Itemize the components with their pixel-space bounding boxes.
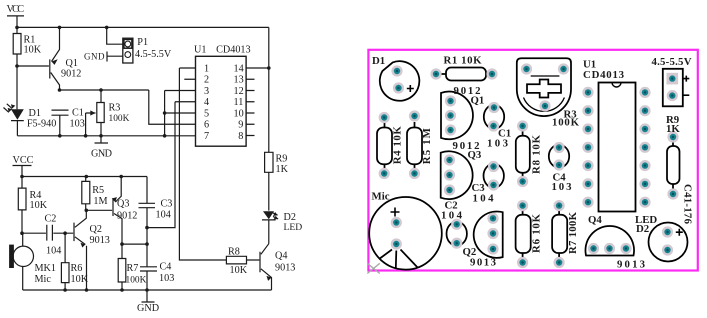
svg-text:R8: R8 [228,247,240,258]
svg-text:Mic: Mic [35,274,52,285]
svg-text:Q1: Q1 [66,58,78,69]
svg-text:R3: R3 [109,102,121,113]
svg-text:R6 10K: R6 10K [531,213,543,253]
svg-text:Q1: Q1 [471,95,485,107]
svg-text:10K: 10K [230,265,248,276]
svg-text:Q4: Q4 [275,251,287,262]
svg-text:9013: 9013 [275,262,295,273]
svg-text:CD4013: CD4013 [583,69,625,81]
svg-text:C2: C2 [45,214,57,225]
svg-text:C4: C4 [160,262,172,273]
svg-text:GND: GND [91,149,112,160]
svg-text:R5: R5 [92,185,104,196]
svg-text:9012: 9012 [117,210,137,221]
svg-text:R7: R7 [127,263,139,274]
svg-text:R1 10K: R1 10K [444,55,483,67]
svg-text:CD4013: CD4013 [216,45,251,56]
svg-text:103: 103 [70,119,85,130]
svg-text:R5 1M: R5 1M [421,128,433,164]
svg-text:104: 104 [46,246,61,257]
svg-text:Q3: Q3 [117,198,129,209]
svg-text:R7 100K: R7 100K [567,211,579,254]
svg-text:Q2: Q2 [90,224,102,235]
svg-text:103: 103 [552,181,573,193]
svg-text:1K: 1K [666,123,680,135]
svg-text:4.5-5.5V: 4.5-5.5V [652,56,692,68]
svg-text:10K: 10K [30,200,48,211]
svg-text:U1: U1 [194,45,206,56]
svg-text:14: 14 [234,63,244,74]
svg-text:9013: 9013 [617,259,646,271]
svg-text:P1: P1 [137,37,148,48]
svg-text:D1: D1 [372,55,385,67]
svg-text:5: 5 [204,108,209,119]
svg-text:R9: R9 [276,154,288,165]
svg-text:MK1: MK1 [35,263,57,274]
svg-text:R6: R6 [71,263,83,274]
svg-text:Q3: Q3 [468,149,482,161]
svg-text:12: 12 [234,86,244,97]
svg-text:100K: 100K [109,114,130,124]
svg-text:1: 1 [204,63,209,74]
svg-text:Q4: Q4 [588,214,602,226]
svg-text:1K: 1K [276,164,289,175]
svg-text:103: 103 [487,138,509,150]
svg-text:GND: GND [84,52,105,62]
svg-text:7: 7 [204,131,209,142]
svg-text:9012: 9012 [61,69,81,80]
svg-text:10K: 10K [24,45,42,56]
svg-text:13: 13 [234,75,244,86]
svg-text:100K: 100K [552,116,580,128]
svg-text:11: 11 [234,97,244,108]
svg-text:C3: C3 [161,199,173,210]
svg-text:9013: 9013 [90,235,110,246]
svg-text:R4 10K: R4 10K [391,126,403,165]
svg-text:103: 103 [159,273,174,284]
svg-text:VCC: VCC [13,155,34,166]
svg-text:2: 2 [204,75,209,86]
svg-text:C1: C1 [72,107,84,118]
svg-text:VCC: VCC [7,4,25,15]
svg-text:4: 4 [204,97,209,108]
svg-text:F5-940: F5-940 [27,118,56,129]
svg-text:100K: 100K [126,276,147,286]
svg-text:9013: 9013 [470,257,497,269]
svg-text:104: 104 [441,210,463,222]
svg-text:9: 9 [238,120,243,131]
svg-text:D2: D2 [636,223,649,235]
svg-text:10: 10 [234,108,244,119]
svg-text:3: 3 [204,86,209,97]
svg-text:C41-176: C41-176 [682,184,694,225]
svg-text:1M: 1M [93,196,107,207]
svg-text:LED: LED [284,222,303,233]
svg-text:8: 8 [238,131,243,142]
svg-text:Mic: Mic [372,191,390,203]
svg-text:4.5-5.5V: 4.5-5.5V [135,49,172,60]
svg-text:104: 104 [473,193,495,205]
svg-text:6: 6 [204,120,209,131]
svg-text:GND: GND [137,303,159,314]
svg-text:10K: 10K [71,274,89,285]
svg-text:R8 10K: R8 10K [531,134,543,174]
svg-text:104: 104 [156,209,171,220]
